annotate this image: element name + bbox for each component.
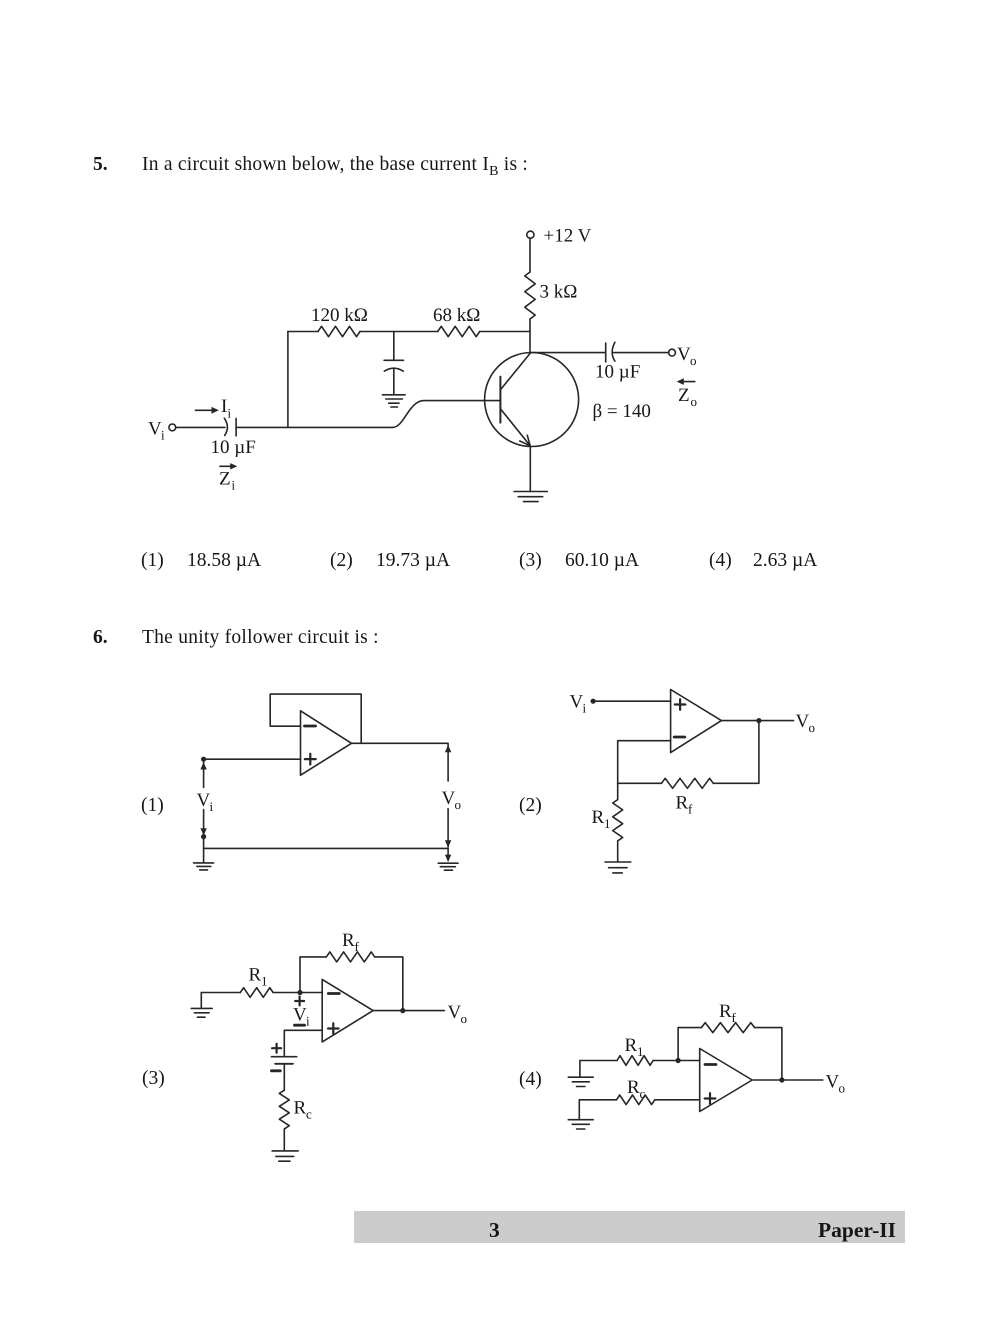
label Rc option3 [294,1098,313,1122]
resistor 3 kOhm [525,272,535,319]
node Vi option2 [591,699,596,704]
wire ground stub upper option4 [579,1061,581,1077]
node input option1 [201,757,206,762]
op-amp U4 option4 [700,1049,753,1112]
ground emitter [514,492,547,502]
label Rf option3 [342,930,360,954]
wire minus input option2 [618,741,671,784]
wire bias branch left segment [288,331,318,333]
svg-text:β = 140: β = 140 [593,401,651,422]
resistor Rf option3 [326,952,374,962]
svg-text:Z: Z [219,469,231,490]
battery V option3 [271,1057,296,1064]
label Vi option1 [197,790,214,814]
svg-text:i: i [228,406,232,421]
node minus input option4 [676,1058,681,1063]
label Rc option4 [627,1077,646,1101]
ground left option1 [194,863,214,870]
wire R1 to node option3 [273,992,322,994]
label Ii [221,396,232,421]
wire R1 to op-amp option4 [653,1060,700,1062]
svg-text:R: R [676,793,689,814]
label R1 option3 [249,965,268,989]
plus sign battery option3 [272,1044,281,1053]
minus sign U1 [305,725,316,728]
transistor Q1 [485,353,579,447]
svg-text:V: V [448,1002,462,1023]
minus sign source bottom option3 [295,1024,305,1027]
terminal Vi [169,424,176,431]
wire plus input option3 [284,1030,322,1056]
option label (2) [519,795,542,817]
footer bar [354,1211,905,1243]
svg-text:f: f [732,1010,737,1025]
plus sign U4 [705,1093,716,1104]
option label (4) [519,1069,542,1091]
svg-text:V: V [148,418,162,439]
wire output option4 [752,1079,823,1081]
svg-text:i: i [161,427,165,442]
svg-text:V: V [677,344,691,365]
svg-text:i: i [232,478,236,493]
wire riser to Rf option4 [678,1028,701,1061]
label R1 option4 [625,1035,644,1059]
svg-text:o: o [455,797,462,812]
wire R1 to ground option2 [617,841,619,862]
option label (1) [141,795,164,817]
wire ground stub option3 [200,993,202,1008]
wire R to collector node [529,319,531,353]
node lower option1 [201,834,206,839]
ground bottom option3 [272,1151,298,1161]
node output option2 [756,718,761,723]
wire Rc to ground option3 [283,1129,285,1150]
wire Rc to ground option4 [579,1100,616,1119]
label Vi option2 [570,692,587,716]
footer page number [489,1218,500,1243]
svg-text:R: R [592,807,605,828]
op-amp U3 option3 [322,979,373,1042]
svg-text:1: 1 [604,816,611,831]
wire to R1 option3 [201,992,240,994]
wire Rf to output option3 [375,957,403,1011]
terminal +12V [527,231,534,238]
svg-text:I: I [221,396,227,417]
svg-text:3 kΩ: 3 kΩ [540,282,578,303]
plus sign U3 [328,1023,339,1034]
resistor R1 option4 [617,1056,653,1066]
resistor 68 kOhm [438,326,480,336]
resistor Rf option2 [662,778,714,788]
node output option3 [400,1008,405,1013]
arrow Ii [195,407,218,414]
footer paper label [818,1218,896,1243]
resistor Rc option3 [279,1090,289,1129]
question 5 options [141,550,164,572]
wire plus input option4 [655,1099,700,1101]
node bias tap [393,332,395,360]
capacitor bypass [384,360,403,394]
wire riser to bias branch [287,332,289,428]
svg-text:o: o [809,720,816,735]
svg-text:o: o [839,1081,846,1096]
svg-text:V: V [796,711,810,732]
arrow Vo up option1 [445,744,451,781]
op-amp U2 option2 [671,690,722,753]
svg-text:+12 V: +12 V [544,226,592,247]
wire node to ground option1 [203,837,205,863]
arrow Zi vector [220,463,237,469]
plus sign source top option3 [295,997,304,1006]
wire riser to Rf option3 [300,957,326,993]
wire between resistors [360,331,438,333]
svg-text:o: o [690,353,697,368]
svg-text:i: i [306,1014,310,1029]
resistor Rc option4 [617,1095,655,1105]
node minus input option3 [297,990,302,995]
label Vo option3 [448,1002,468,1026]
wire Rf to output riser option2 [713,721,759,784]
option label (3) [142,1068,165,1090]
svg-text:i: i [583,701,587,716]
wire output option2 [721,720,793,722]
label Vo option2 [796,711,816,735]
wire emitter down [529,446,531,491]
label Vi [148,418,165,442]
svg-text:R: R [627,1077,640,1098]
label Rf option2 [676,793,694,817]
minus sign battery option3 [271,1069,280,1072]
ground option2 [605,862,631,873]
ground bypass [382,395,405,407]
svg-text:1: 1 [261,974,268,989]
capacitor output 10uF [606,342,615,362]
minus sign U3 [328,992,339,995]
svg-text:120 kΩ: 120 kΩ [311,305,368,326]
label Vo option4 [826,1072,846,1096]
wire cap to Vo [613,352,668,354]
ground left option3 [191,1008,212,1017]
svg-text:c: c [640,1086,646,1101]
svg-text:R: R [249,965,262,986]
op-amp U1 option1 [301,711,352,775]
wire collector to output cap [532,352,606,354]
wire output option3 [373,1010,444,1012]
question 5 text [93,154,108,176]
svg-text:R: R [294,1098,307,1119]
svg-text:R: R [342,930,355,951]
svg-text:V: V [826,1072,840,1093]
minus sign U2 [674,736,685,739]
wire feedback loop option1 [270,694,361,743]
svg-text:Z: Z [678,385,690,406]
wire Vi to capacitor [176,426,225,428]
label Zi [219,469,236,493]
wire supply to R [529,238,531,272]
wire S-curve to base [393,401,501,428]
label R1 option2 [592,807,611,831]
label Zo [678,385,697,409]
svg-text:f: f [688,802,693,817]
wire node to Rf option2 [618,782,662,784]
wire Rf to output option4 [755,1028,782,1080]
wire plus input option2 [593,700,671,702]
wire 68k to collector line [480,331,530,333]
label Rf option4 [719,1001,737,1025]
resistor R1 option3 [240,988,273,998]
label Vo option1 [442,788,462,812]
label Vo [677,344,697,368]
plus sign U1 [305,754,316,765]
svg-text:R: R [719,1001,732,1022]
node output option4 [779,1077,784,1082]
arrow Vo down option1 [445,809,451,848]
svg-text:V: V [442,788,456,809]
label Vi option3 [293,1005,310,1029]
svg-text:i: i [210,799,214,814]
svg-text:68 kΩ: 68 kΩ [433,305,480,326]
svg-text:f: f [355,939,360,954]
svg-text:c: c [306,1107,312,1122]
svg-text:o: o [691,394,698,409]
wire output option1 [352,742,449,744]
wire input main [236,426,393,428]
svg-text:V: V [293,1005,307,1026]
minus sign U4 [705,1063,716,1066]
resistor Rf option4 [701,1023,754,1033]
ground upper option4 [568,1077,593,1086]
plus sign U2 [675,699,686,710]
resistor R1 option2 [613,800,623,841]
wire bottom rail option1 [204,847,449,849]
ground lower option4 [568,1120,593,1129]
wire battery to Rc option3 [283,1064,285,1090]
svg-text:10 µF: 10 µF [595,362,640,383]
arrow Vi up option1 [200,762,206,788]
arrow Vi down option1 [200,810,206,836]
svg-text:R: R [625,1035,638,1056]
capacitor input 10uF [224,418,236,436]
svg-text:1: 1 [637,1044,644,1059]
ground right option1 [438,863,458,870]
svg-text:V: V [197,790,211,811]
svg-text:o: o [461,1011,468,1026]
question 6 text [93,627,108,649]
wire plus input option1 [204,758,301,760]
arrow to ground option1 [445,848,451,861]
wire to R1 option4 [580,1060,617,1062]
wire to R1 option2 [617,783,619,799]
terminal Vo [669,349,676,356]
arrow Zo vector [677,378,695,385]
svg-text:10 µF: 10 µF [211,437,256,458]
resistor 120 kOhm [318,326,360,336]
svg-text:V: V [570,692,584,713]
